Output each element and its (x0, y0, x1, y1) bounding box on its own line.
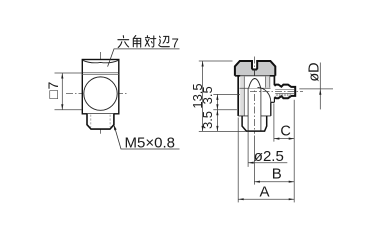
node body outline left view (82, 60, 119, 114)
svg-text:ø2.5: ø2.5 (254, 148, 284, 165)
node cap bottom joint line (235, 75, 275, 77)
node dimension B line (254, 181, 294, 183)
node hex flat line 2 (82, 74, 119, 76)
node threaded stud left view (87, 114, 114, 129)
node barb bore line bottom (275, 92, 294, 94)
node kanji roku (118, 36, 129, 48)
svg-text:3.5: 3.5 (200, 111, 215, 129)
node bore wall right (260, 88, 262, 131)
node kanji hen (159, 36, 170, 47)
node body wall inner line right (265, 76, 267, 87)
node body lower right wall (270, 102, 272, 116)
node dimension A extension left (237, 118, 239, 203)
svg-text:3.5: 3.5 (200, 86, 215, 104)
node interior seat line (240, 87, 271, 89)
node dimension oD leader line (299, 88, 333, 90)
svg-text:A: A (259, 183, 269, 200)
node kanji kaku (133, 36, 140, 48)
node hex flat line 1 (82, 72, 119, 74)
node dimension C extension left (273, 103, 275, 141)
svg-text:□7: □7 (45, 81, 61, 99)
node screw head cap outline U2 (235, 61, 275, 76)
node dimension C line (274, 138, 294, 140)
wire horizontal centerline left view (66, 93, 128, 95)
svg-text:C: C (280, 123, 290, 139)
node barb outline (274, 85, 295, 99)
node label hex width leader (108, 49, 180, 67)
node elbow passage arc (258, 88, 271, 103)
node label hex width text (vector kanji 六角対辺 + 7) (118, 36, 169, 48)
node threaded stud right view (242, 116, 267, 131)
node hex chamfer arcs (83, 60, 118, 62)
node slot lower mark (254, 70, 256, 76)
node dimension 13.5 line (202, 61, 204, 131)
node barb section hatch (276, 94, 290, 97)
node dimension C extension right (shared with B A) (293, 100, 295, 203)
wire hidden thread line right (109, 115, 111, 128)
node dimension square-7 extension top (55, 72, 83, 74)
svg-text:B: B (272, 166, 282, 183)
node dimension o2.5 extension (247, 132, 249, 167)
node dimension o2.5 leader (248, 162, 287, 164)
node barb boss lower edge (271, 98, 275, 103)
node dimension 3.5 line (216, 94, 218, 131)
node dimension square-7 extension bottom (55, 109, 83, 111)
node dimension A line (238, 198, 294, 200)
node dimension 13.5 extension top (199, 60, 233, 62)
node body outer wall left (237, 76, 239, 116)
svg-text:øD: øD (307, 62, 323, 81)
svg-text:M5×0.8: M5×0.8 (125, 135, 175, 152)
node dimension square-7 line (61, 73, 63, 110)
node dimension bottom shared extension (199, 130, 246, 132)
node body wall gray band right (266, 76, 270, 87)
wire barb horizontal centerline (250, 90, 303, 92)
node body wall gray band left (240, 76, 244, 116)
node bore wall left (247, 88, 249, 131)
node body wall inner line left (243, 76, 245, 116)
wire hidden thread line left (90, 115, 92, 128)
node dimension 3.5 extension mid-top (213, 93, 240, 95)
node body outer wall right upper (273, 76, 275, 85)
svg-text:7: 7 (172, 35, 179, 50)
node dimension 3.5 extension middle (213, 109, 237, 111)
node label M5 thread leader (114, 126, 179, 149)
node kanji tai (145, 36, 156, 47)
node body bottom step (238, 115, 271, 117)
node barb bore line top (275, 88, 294, 90)
wire vertical centerline left view (100, 52, 102, 134)
node circle (barb seen head-on) (84, 77, 117, 110)
node internal dome (249, 79, 261, 89)
wire vertical centerline right view (253, 57, 255, 134)
node dimension B extension left (253, 136, 255, 185)
node screw head cap fill (235, 61, 275, 76)
